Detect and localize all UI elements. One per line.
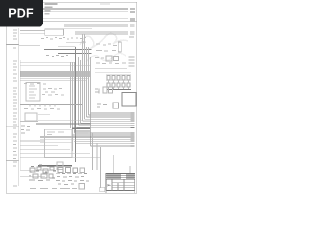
wire stub header left bbox=[6, 43, 19, 45]
vertical wire V2 bbox=[96, 143, 98, 170]
vertical wire bus left bbox=[18, 28, 20, 186]
wire net D with junction bbox=[66, 41, 85, 43]
wire net J bbox=[20, 65, 91, 67]
wire net E bbox=[58, 46, 76, 48]
data bus D1 bbox=[20, 77, 88, 79]
wire net N bbox=[20, 121, 38, 123]
net label cluster dark bbox=[72, 128, 90, 134]
vertical wire V4 bbox=[113, 155, 115, 173]
capacitor row C1-C3 bbox=[46, 56, 68, 57]
IC U9 label bbox=[47, 132, 64, 135]
wire rail RN mid bbox=[106, 75, 131, 81]
SMD resistor row RN1 bbox=[107, 76, 130, 81]
vertical wire V1 bbox=[92, 133, 94, 170]
wire bus with taps bbox=[20, 104, 82, 106]
wire rail RN top bbox=[95, 71, 131, 73]
wire bus G bbox=[58, 53, 92, 55]
connector J5 bbox=[100, 187, 105, 192]
IC U4 bbox=[26, 83, 40, 102]
component cluster bottom middle bbox=[56, 168, 89, 185]
long bus wire Q bbox=[40, 136, 135, 138]
title text block bbox=[45, 3, 111, 14]
watermark signature 2 bbox=[86, 54, 126, 63]
data bus D0 bbox=[20, 75, 91, 77]
address bus group 2 bbox=[71, 133, 135, 146]
wire top bus bbox=[45, 28, 92, 30]
left pin label column bbox=[13, 30, 17, 186]
resistor row R1-R4 bbox=[41, 38, 86, 40]
wire pair net A bbox=[64, 24, 135, 26]
vertical wire left 2 bbox=[20, 60, 22, 170]
component row L1 bbox=[24, 83, 46, 86]
power bus GND bbox=[20, 73, 91, 75]
crystal X1 bbox=[122, 93, 136, 107]
wire into U1 pin 1 bbox=[20, 30, 45, 32]
address bus group 1 bbox=[77, 113, 135, 127]
wire net P bbox=[20, 140, 44, 142]
wire net N2 bbox=[38, 119, 91, 121]
wire net C bbox=[19, 44, 40, 46]
wire net I bbox=[20, 61, 75, 63]
wire stub left bbox=[6, 125, 19, 127]
IC U8 bbox=[25, 113, 37, 121]
IC U2 bbox=[106, 56, 112, 61]
staircase wire T3 bbox=[20, 153, 90, 155]
component cluster L4 bbox=[21, 126, 30, 133]
SMD capacitor row CN1 bbox=[107, 83, 130, 87]
connector stub column right bbox=[129, 37, 135, 66]
wire net U1e bbox=[20, 169, 56, 171]
revision table header lines bbox=[6, 9, 136, 21]
connector J2 bracket bbox=[118, 42, 121, 52]
svg-text:PDF: PDF bbox=[8, 7, 34, 21]
relay K3 bbox=[57, 162, 63, 170]
staircase wire T1 bbox=[20, 145, 58, 147]
title block body rows bbox=[112, 179, 135, 190]
bus terminal dashes bbox=[131, 113, 135, 146]
power bus VCC bbox=[20, 71, 91, 73]
wire net M bbox=[38, 113, 50, 115]
vertical wire V3 bbox=[100, 147, 102, 188]
IC U4 pins bbox=[29, 86, 37, 98]
wire bus F bbox=[44, 49, 92, 51]
wire stub U1e bbox=[6, 159, 19, 161]
IC U6 bbox=[109, 87, 113, 93]
staircase wire T4 bbox=[20, 157, 101, 159]
title block header grid bbox=[106, 173, 135, 179]
connector J4 bbox=[79, 184, 85, 190]
power rail segment bbox=[107, 88, 131, 90]
component cluster bottom left bbox=[29, 165, 56, 181]
text row bottom bbox=[30, 188, 77, 190]
IC U9 main processor bbox=[45, 129, 73, 157]
IC U7 bbox=[113, 103, 119, 109]
connector J1 bbox=[45, 29, 64, 35]
SMD row pin stubs bbox=[109, 80, 129, 89]
diode cluster D5 bbox=[97, 104, 107, 107]
watermark signature bbox=[80, 33, 128, 49]
wire pair net B bbox=[75, 32, 135, 34]
transistor Q1 pair bbox=[95, 89, 99, 94]
title block base bbox=[106, 191, 135, 194]
component cluster K1 bbox=[95, 44, 117, 58]
wire net S bbox=[40, 142, 72, 144]
wire net U1f bbox=[20, 175, 45, 177]
component row L3 bbox=[24, 108, 60, 111]
ground rail bbox=[38, 165, 72, 167]
title block outline bbox=[106, 173, 135, 190]
staircase wire T2 bbox=[20, 149, 70, 151]
wire net H bbox=[95, 68, 127, 70]
PDF badge bbox=[0, 0, 43, 27]
vertical bus ladder bbox=[71, 34, 91, 162]
wire net R bbox=[40, 138, 75, 140]
component cluster L2 bbox=[43, 89, 62, 93]
IC U5 bbox=[103, 87, 107, 93]
drawing frame bbox=[6, 2, 136, 193]
component row L2b bbox=[42, 94, 64, 97]
logo arrow bbox=[108, 184, 112, 186]
IC U3 bbox=[114, 57, 119, 61]
vertical wire V5 bbox=[129, 166, 131, 173]
wire into U1 pin 2 bbox=[20, 32, 45, 34]
wire bus O bbox=[36, 123, 91, 125]
revision table right cells bbox=[130, 9, 135, 21]
component cluster K2 bbox=[96, 62, 126, 65]
data bus D2 bbox=[20, 79, 86, 81]
